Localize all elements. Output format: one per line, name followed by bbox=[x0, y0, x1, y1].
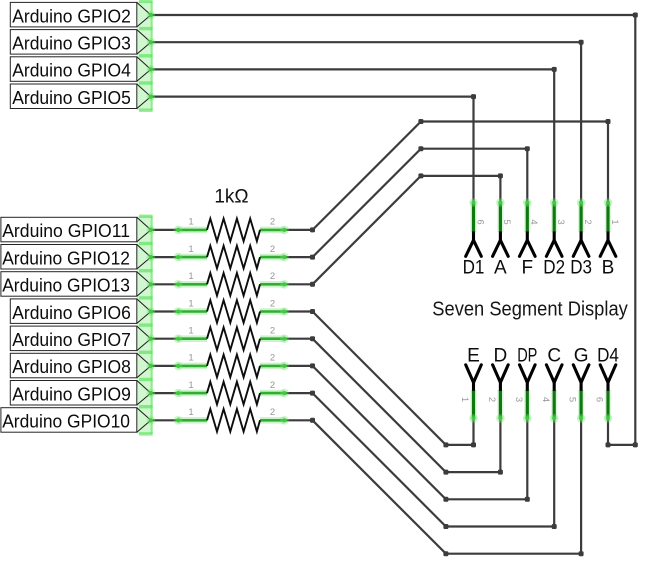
svg-text:Arduino GPIO5: Arduino GPIO5 bbox=[12, 87, 131, 108]
svg-text:6: 6 bbox=[594, 397, 605, 402]
svg-text:F: F bbox=[521, 258, 533, 279]
svg-text:2: 2 bbox=[270, 380, 275, 391]
svg-text:3: 3 bbox=[555, 219, 566, 224]
svg-text:4: 4 bbox=[528, 219, 539, 224]
svg-text:Arduino GPIO3: Arduino GPIO3 bbox=[12, 33, 131, 54]
svg-text:Arduino GPIO6: Arduino GPIO6 bbox=[12, 302, 131, 323]
svg-text:2: 2 bbox=[270, 326, 275, 337]
svg-text:DP: DP bbox=[517, 345, 537, 366]
svg-text:2: 2 bbox=[270, 353, 275, 364]
svg-text:D1: D1 bbox=[463, 258, 485, 279]
svg-text:D4: D4 bbox=[597, 345, 619, 366]
svg-text:Arduino GPIO10: Arduino GPIO10 bbox=[2, 411, 130, 432]
svg-text:1: 1 bbox=[188, 326, 193, 337]
svg-text:1: 1 bbox=[609, 219, 620, 224]
svg-text:1kΩ: 1kΩ bbox=[214, 187, 248, 208]
svg-text:2: 2 bbox=[486, 397, 497, 402]
svg-text:Arduino GPIO7: Arduino GPIO7 bbox=[12, 329, 131, 350]
svg-text:2: 2 bbox=[582, 219, 593, 224]
svg-text:D2: D2 bbox=[543, 258, 565, 279]
svg-text:Arduino GPIO4: Arduino GPIO4 bbox=[12, 60, 131, 81]
svg-text:C: C bbox=[547, 345, 561, 366]
svg-text:G: G bbox=[574, 345, 589, 366]
svg-text:Seven Segment Display: Seven Segment Display bbox=[432, 298, 628, 321]
svg-text:1: 1 bbox=[188, 353, 193, 364]
svg-text:1: 1 bbox=[188, 380, 193, 391]
svg-text:A: A bbox=[494, 258, 507, 279]
svg-text:2: 2 bbox=[270, 217, 275, 228]
svg-text:Arduino GPIO9: Arduino GPIO9 bbox=[12, 383, 131, 404]
svg-text:Arduino GPIO13: Arduino GPIO13 bbox=[2, 275, 130, 296]
svg-text:1: 1 bbox=[188, 244, 193, 255]
svg-text:Arduino GPIO2: Arduino GPIO2 bbox=[12, 5, 131, 26]
svg-text:Arduino GPIO12: Arduino GPIO12 bbox=[2, 247, 130, 268]
svg-text:B: B bbox=[602, 258, 615, 279]
svg-text:E: E bbox=[467, 345, 480, 366]
svg-text:1: 1 bbox=[188, 217, 193, 228]
svg-text:5: 5 bbox=[501, 219, 512, 224]
svg-text:D3: D3 bbox=[570, 258, 592, 279]
svg-text:D: D bbox=[494, 345, 508, 366]
svg-text:6: 6 bbox=[474, 219, 485, 224]
svg-text:5: 5 bbox=[567, 397, 578, 402]
svg-text:2: 2 bbox=[270, 271, 275, 282]
svg-text:1: 1 bbox=[459, 397, 470, 402]
svg-text:2: 2 bbox=[270, 244, 275, 255]
svg-text:3: 3 bbox=[513, 397, 524, 402]
svg-text:1: 1 bbox=[188, 407, 193, 418]
svg-text:Arduino GPIO11: Arduino GPIO11 bbox=[2, 220, 130, 241]
svg-text:1: 1 bbox=[188, 298, 193, 309]
svg-text:1: 1 bbox=[188, 271, 193, 282]
svg-text:2: 2 bbox=[270, 407, 275, 418]
svg-text:4: 4 bbox=[540, 397, 551, 402]
svg-text:2: 2 bbox=[270, 298, 275, 309]
svg-text:Arduino GPIO8: Arduino GPIO8 bbox=[12, 356, 131, 377]
